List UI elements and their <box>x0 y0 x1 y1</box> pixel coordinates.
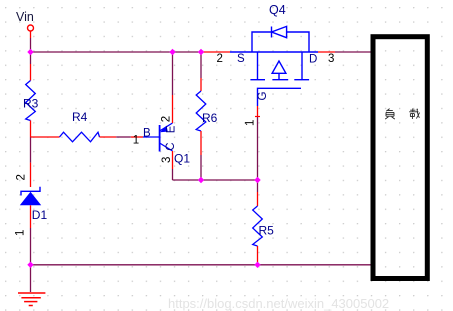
svg-text:1: 1 <box>133 135 139 147</box>
S lead <box>257 52 259 80</box>
svg-text:https://blog.csdn.net/weixin_4: https://blog.csdn.net/weixin_43005002 <box>168 296 389 311</box>
middle channel bar <box>272 79 288 81</box>
transistor Q1 <box>131 123 173 152</box>
svg-text:C: C <box>165 142 177 150</box>
svg-text:2: 2 <box>161 116 173 122</box>
wire top rail left (Vin to R6 top) <box>31 51 202 53</box>
svg-text:D1: D1 <box>32 208 48 222</box>
svg-text:Q1: Q1 <box>174 152 190 166</box>
junction gate column / mid rail <box>254 177 260 183</box>
D lead <box>301 52 303 80</box>
ground symbol <box>18 293 45 306</box>
junction emitter/top rail <box>169 49 175 55</box>
svg-text:2: 2 <box>16 174 28 180</box>
pin Q1 emitter red <box>172 95 174 123</box>
mosfet Q4 <box>230 26 318 106</box>
svg-text:Q4: Q4 <box>269 3 286 17</box>
wire mid rail (collector to gate column) <box>173 179 258 181</box>
junction bottom-left <box>27 262 33 268</box>
substrate arrow <box>272 61 286 73</box>
resistor R4 <box>31 132 117 142</box>
resistor R3 <box>26 64 36 137</box>
wire Q1 emitter to top rail <box>172 52 174 95</box>
svg-text:2: 2 <box>217 53 223 65</box>
junction R6 top <box>198 49 204 55</box>
svg-text:E: E <box>165 125 177 133</box>
svg-text:G: G <box>257 92 269 101</box>
pin Q1 collector red <box>172 151 174 169</box>
load label glyph 载 <box>409 108 419 119</box>
wire R4 to Q1 base <box>116 136 131 138</box>
wire gate column down to mid rail <box>257 117 259 180</box>
wire top rail red segment to Q4 S pin <box>201 51 230 53</box>
pin Vin stem <box>30 31 32 38</box>
svg-text:3: 3 <box>161 157 173 163</box>
wire top rail right (Q4 D pin to load) <box>318 51 335 53</box>
svg-text:R4: R4 <box>72 110 88 124</box>
svg-text:D: D <box>309 54 317 66</box>
junction R5 bottom rail <box>254 262 260 268</box>
junction at Vin rail <box>27 49 33 55</box>
svg-text:B: B <box>143 128 151 140</box>
pin D1 anode red <box>30 205 32 228</box>
load box <box>373 37 427 279</box>
body diode loop <box>252 32 272 52</box>
wire bottom-left down to ground <box>30 265 32 292</box>
svg-text:R6: R6 <box>202 111 218 125</box>
wire Q1 collector down to mid rail <box>172 169 174 180</box>
wire bottom rail <box>31 264 371 266</box>
wire D1 to bottom rail <box>30 228 32 265</box>
junction R6 bottom / mid rail <box>198 177 204 183</box>
wire Vin down to top rail <box>30 38 32 64</box>
wire R3 bottom corner down to D1 <box>30 137 32 163</box>
svg-text:1: 1 <box>245 120 257 126</box>
pin D1 cathode red <box>30 163 32 187</box>
svg-text:R5: R5 <box>259 224 275 238</box>
zener bar <box>21 187 40 196</box>
svg-text:3: 3 <box>328 53 334 65</box>
S-D horizontal line <box>230 51 318 53</box>
arrow Q1 emitter (points into bar) <box>160 126 168 133</box>
diode triangle <box>20 192 41 206</box>
resistor R5 <box>253 180 263 265</box>
svg-text:S: S <box>237 53 245 65</box>
resistor R6 <box>196 52 206 180</box>
pin Q4 gate red <box>257 106 259 117</box>
port Vin terminal circle <box>28 25 34 31</box>
gate bar <box>258 88 302 106</box>
svg-text:R3: R3 <box>23 97 39 111</box>
svg-text:Vin: Vin <box>16 10 34 24</box>
svg-text:1: 1 <box>15 230 27 236</box>
load label glyph 负 <box>385 109 395 120</box>
